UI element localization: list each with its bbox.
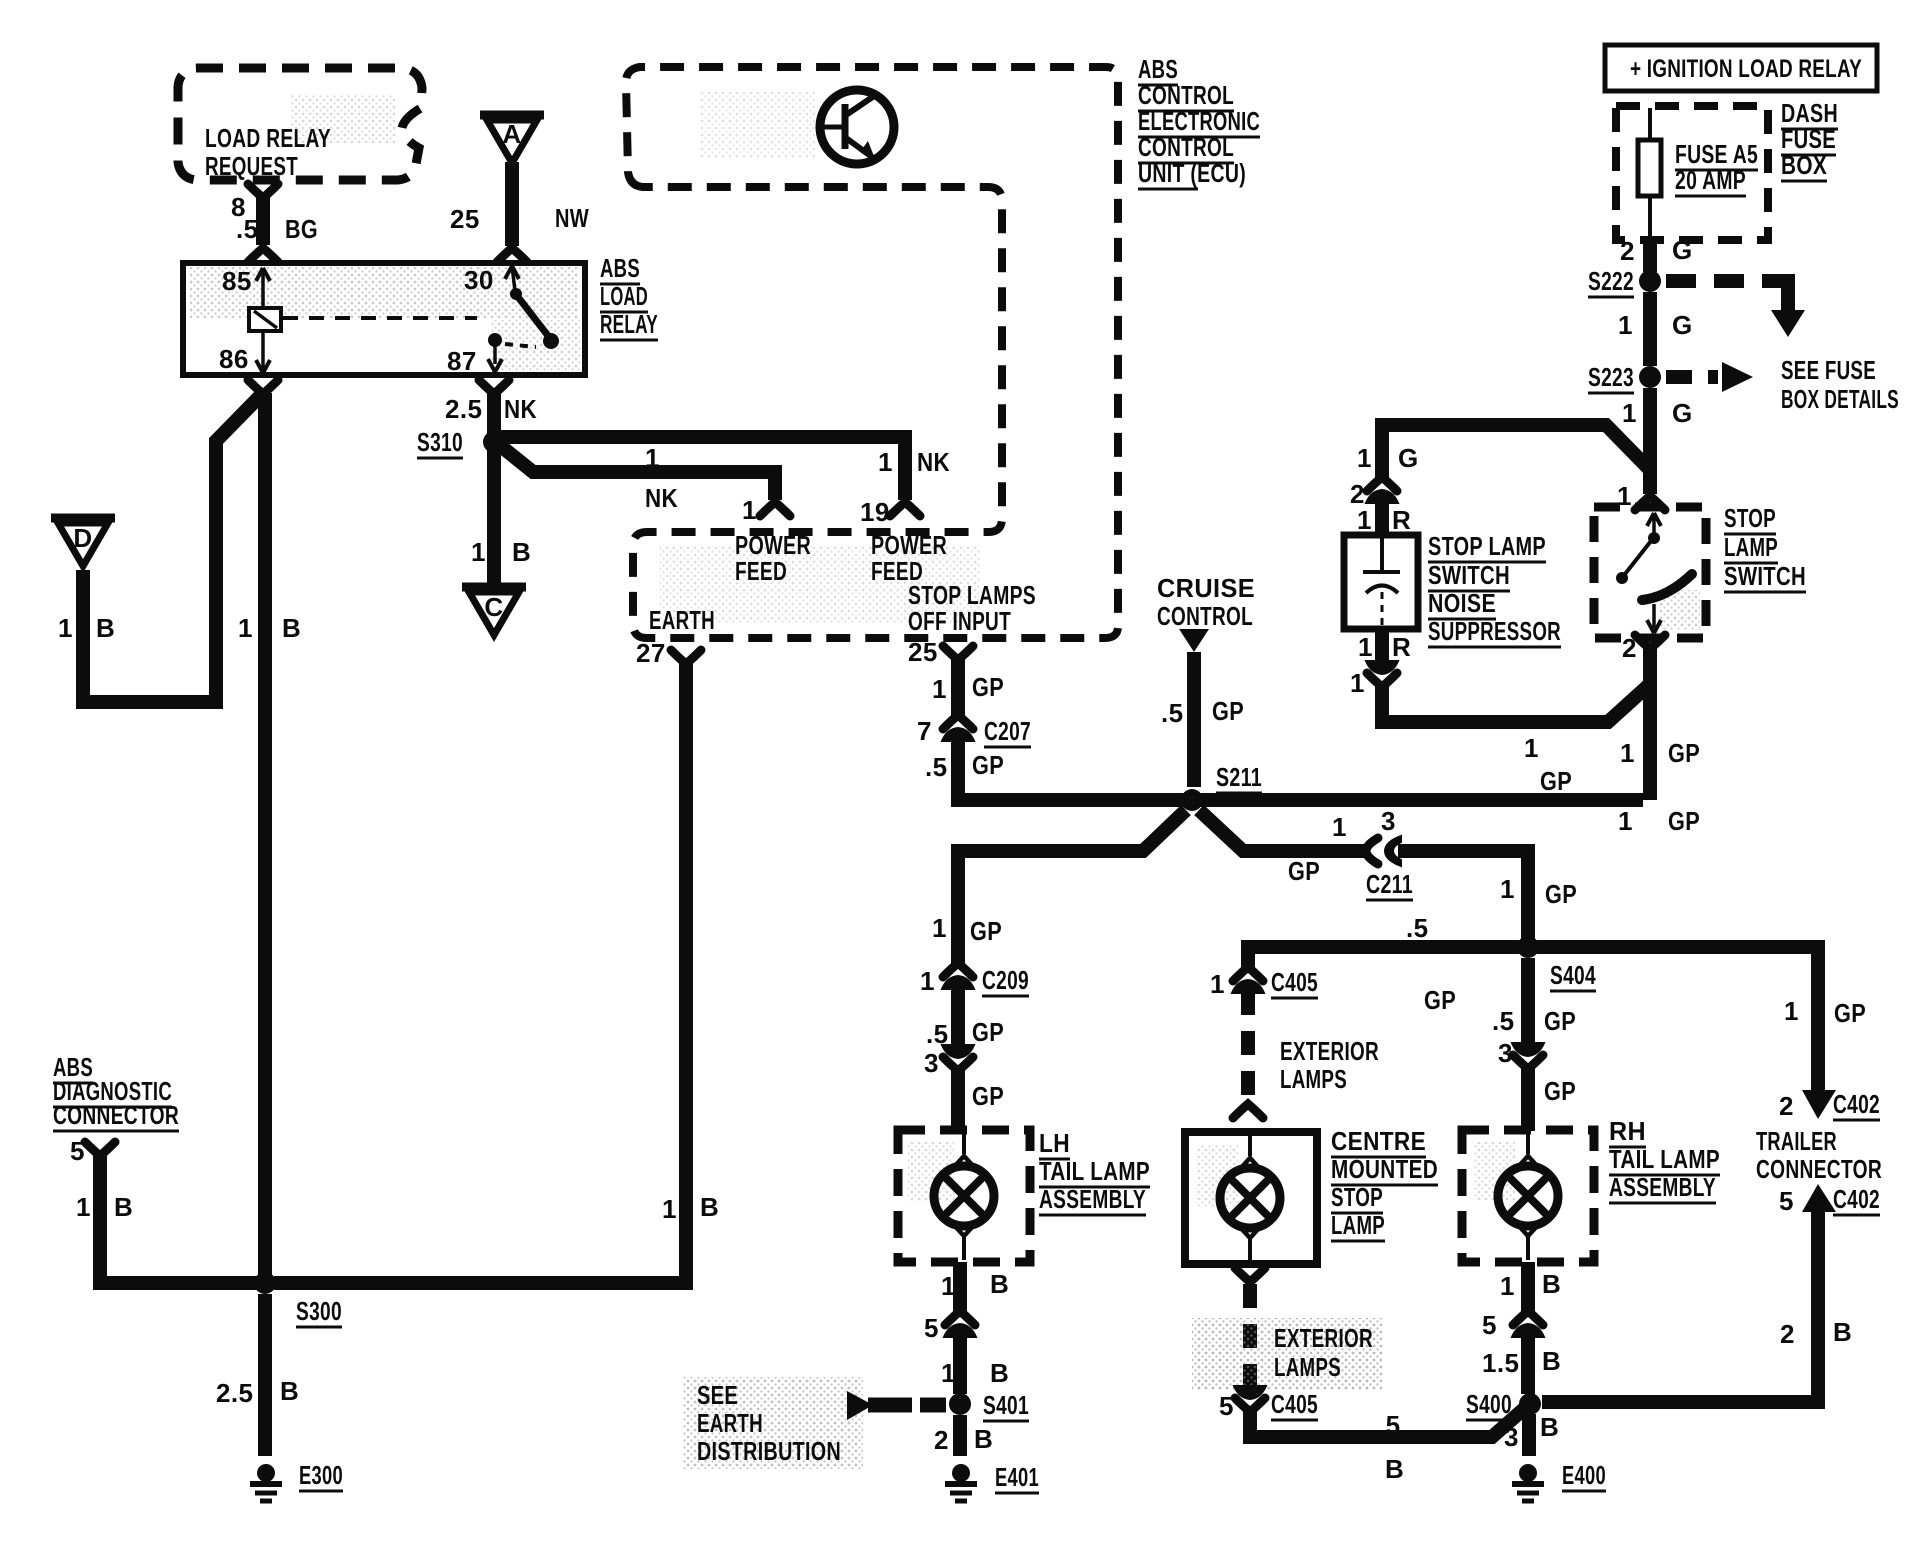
wire fork below centre lamp: [1235, 1268, 1265, 1282]
svg-text:1: 1: [941, 1271, 956, 1301]
svg-text:E401: E401: [995, 1462, 1039, 1492]
wire NW from triangle A to relay pin 30: [450, 162, 589, 262]
connector C402 pin 5 (trailer, arrow up): [1779, 1184, 1880, 1216]
svg-text:B: B: [114, 1192, 133, 1222]
svg-text:NK: NK: [917, 447, 950, 477]
svg-text:5: 5: [1482, 1310, 1497, 1340]
wire BG from load relay request to relay pin 85: [231, 184, 318, 262]
splice S404: [1517, 936, 1596, 991]
svg-text:ASSEMBLY: ASSEMBLY: [1609, 1172, 1716, 1202]
svg-text:B: B: [280, 1376, 299, 1406]
svg-text:1: 1: [932, 913, 947, 943]
svg-text:LH: LH: [1039, 1128, 1070, 1158]
svg-text:19: 19: [860, 497, 890, 527]
svg-text:ASSEMBLY: ASSEMBLY: [1039, 1184, 1146, 1214]
wire GP diagonal from S211 down-left: [958, 810, 1186, 851]
svg-text:1: 1: [1618, 806, 1633, 836]
svg-text:C405: C405: [1271, 1389, 1318, 1419]
svg-text:.5: .5: [1492, 1006, 1514, 1036]
svg-text:E400: E400: [1562, 1460, 1606, 1490]
svg-text:CONTROL: CONTROL: [1157, 601, 1253, 631]
svg-text:5: 5: [1219, 1391, 1234, 1421]
svg-text:1: 1: [238, 613, 253, 643]
svg-text:LAMP: LAMP: [1724, 532, 1778, 562]
ground E400: [1512, 1460, 1606, 1501]
node + IGNITION LOAD RELAY: [1605, 45, 1877, 91]
svg-text:TRAILER: TRAILER: [1756, 1126, 1837, 1156]
wire B from S300 to ECU pin 27: [274, 650, 719, 1283]
svg-text:1.5: 1.5: [1482, 1348, 1519, 1378]
wire GP from cruise control to S211: [1161, 652, 1244, 787]
wire B from RH lamp down: [1500, 1262, 1561, 1312]
svg-text:GP: GP: [970, 916, 1002, 946]
svg-text:1: 1: [1620, 738, 1635, 768]
svg-text:B: B: [1833, 1317, 1852, 1347]
wire G from fuse to splice S222: [1620, 235, 1693, 272]
svg-text:1: 1: [1500, 1271, 1515, 1301]
ground E401: [945, 1462, 1039, 1501]
connector inline 5 below LH lamp: [924, 1311, 976, 1343]
connector pin 2 of noise suppressor (inline): [1350, 477, 1398, 509]
svg-text:RELAY: RELAY: [600, 309, 658, 339]
svg-text:DISTRIBUTION: DISTRIBUTION: [697, 1436, 841, 1466]
svg-text:EXTERIOR: EXTERIOR: [1280, 1036, 1379, 1066]
lamp CENTRE MOUNTED STOP LAMP (solid box): [1185, 1126, 1438, 1264]
wire GP from C207 to S211 horizontal: [925, 740, 1643, 800]
svg-text:S400: S400: [1466, 1389, 1512, 1419]
svg-text:C402: C402: [1833, 1184, 1880, 1214]
wire G from S222 to S223: [1618, 292, 1693, 366]
svg-text:1: 1: [1524, 733, 1539, 763]
wire NK from S310 to ECU pin 19: [500, 437, 950, 516]
svg-text:TAIL LAMP: TAIL LAMP: [1039, 1156, 1150, 1186]
svg-text:EARTH: EARTH: [697, 1408, 763, 1438]
svg-text:1: 1: [1617, 481, 1632, 511]
splice S310: [417, 427, 505, 458]
svg-text:3: 3: [1381, 806, 1396, 836]
svg-text:EARTH: EARTH: [649, 605, 715, 635]
label STOP LAMP SWITCH: [1724, 503, 1806, 592]
svg-text:.5: .5: [1406, 913, 1428, 943]
svg-text:G: G: [1672, 235, 1693, 265]
wire B from C405 to S400 vertical: [1250, 1407, 1526, 1484]
node CRUISE CONTROL: [1157, 573, 1255, 652]
connector C405 (top, centre lamp feed): [1210, 967, 1318, 999]
svg-text:C: C: [484, 592, 503, 622]
svg-text:5: 5: [924, 1313, 939, 1343]
node SEE EARTH DISTRIBUTION (dashed arrow into S401): [683, 1377, 946, 1469]
svg-text:S310: S310: [417, 427, 463, 457]
connector inline 5 below RH lamp: [1482, 1310, 1544, 1340]
svg-text:27: 27: [636, 638, 666, 668]
svg-text:1: 1: [1332, 812, 1347, 842]
svg-text:GP: GP: [972, 1017, 1004, 1047]
relay switch contact (pins 30-87): [488, 266, 559, 372]
svg-text:LAMPS: LAMPS: [1274, 1352, 1341, 1382]
svg-text:REQUEST: REQUEST: [205, 151, 298, 181]
svg-text:2: 2: [934, 1425, 949, 1455]
svg-text:STOP: STOP: [1724, 503, 1776, 533]
svg-text:5: 5: [70, 1136, 85, 1166]
svg-text:FEED: FEED: [735, 556, 787, 586]
svg-text:1: 1: [1350, 668, 1365, 698]
svg-text:TAIL LAMP: TAIL LAMP: [1609, 1144, 1720, 1174]
svg-text:1: 1: [1784, 996, 1799, 1026]
svg-text:GP: GP: [1668, 806, 1700, 836]
svg-text:30: 30: [464, 265, 494, 295]
svg-text:+ IGNITION LOAD RELAY: + IGNITION LOAD RELAY: [1630, 55, 1862, 83]
svg-text:B: B: [282, 613, 301, 643]
relay coil (pins 85-86): [249, 268, 281, 373]
wire dashed (exterior lamps) from C405 to centre stop lamp: [1233, 991, 1379, 1118]
svg-text:GP: GP: [1834, 998, 1866, 1028]
splice S223: [1588, 362, 1661, 393]
svg-text:C402: C402: [1833, 1089, 1880, 1119]
splice S300: [254, 1272, 342, 1327]
ground E300: [250, 1460, 343, 1501]
svg-text:GP: GP: [1212, 696, 1244, 726]
svg-text:1: 1: [76, 1192, 91, 1222]
connector inline 3 on LH feed: [924, 1045, 974, 1078]
svg-text:1: 1: [941, 1358, 956, 1388]
svg-text:A: A: [502, 119, 521, 149]
svg-text:B: B: [512, 537, 531, 567]
svg-text:1: 1: [1500, 874, 1515, 904]
svg-text:B: B: [974, 1424, 993, 1454]
wire GP diagonal from S211 down-right: [1199, 810, 1366, 851]
wire dashed (exterior lamps) from centre lamp down: [1192, 1284, 1382, 1390]
svg-text:GP: GP: [1545, 879, 1577, 909]
svg-text:1: 1: [742, 495, 757, 525]
svg-text:25: 25: [908, 637, 938, 667]
svg-text:2: 2: [1779, 1091, 1794, 1121]
label ABS LOAD RELAY: [600, 253, 658, 340]
svg-text:UNIT (ECU): UNIT (ECU): [1138, 158, 1246, 188]
svg-text:GP: GP: [1540, 766, 1572, 796]
svg-text:1: 1: [1358, 632, 1373, 662]
svg-text:G: G: [1398, 443, 1419, 473]
wire GP from stop lamp switch down to S211 line: [1618, 648, 1700, 836]
svg-text:CENTRE: CENTRE: [1331, 1126, 1426, 1156]
wire B from relay pin 86 down to splice S300: [238, 380, 301, 1283]
svg-text:1: 1: [1618, 310, 1633, 340]
wire GP from C211 to splice S404: [1398, 851, 1577, 940]
svg-text:1: 1: [662, 1194, 677, 1224]
wire B from diagnostic connector to S300: [70, 1136, 258, 1283]
svg-text:D: D: [73, 523, 92, 553]
svg-text:1: 1: [1622, 398, 1637, 428]
svg-text:3: 3: [1498, 1038, 1513, 1068]
wire G from S223 down to stop lamp switch: [1622, 388, 1693, 494]
svg-text:3: 3: [924, 1048, 939, 1078]
svg-text:LAMP: LAMP: [1331, 1210, 1385, 1240]
label STOP LAMP SWITCH NOISE SUPPRESSOR: [1428, 531, 1561, 647]
svg-text:BOX DETAILS: BOX DETAILS: [1781, 384, 1899, 414]
svg-text:GP: GP: [972, 672, 1004, 702]
wire B from connector to splice S400: [1482, 1335, 1561, 1394]
svg-text:GP: GP: [972, 1081, 1004, 1111]
svg-text:87: 87: [447, 346, 477, 376]
svg-text:S211: S211: [1216, 762, 1262, 792]
svg-text:GP: GP: [1544, 1076, 1576, 1106]
connector triangle D: [51, 518, 115, 566]
svg-text:MOUNTED: MOUNTED: [1331, 1154, 1438, 1184]
svg-text:1: 1: [1357, 443, 1372, 473]
relay coil-to-contact dashed link: [283, 316, 477, 320]
svg-text:E300: E300: [299, 1460, 343, 1490]
wire B branch from pin 86 to triangle D: [58, 393, 263, 702]
wire B from S300 to earth E300: [216, 1294, 299, 1456]
svg-text:G: G: [1672, 310, 1693, 340]
svg-text:GP: GP: [972, 750, 1004, 780]
svg-text:LOAD RELAY: LOAD RELAY: [205, 123, 331, 153]
wire GP from S211 branch down to connector C209: [932, 851, 1002, 964]
svg-text:LOAD: LOAD: [600, 281, 648, 311]
svg-text:SWITCH: SWITCH: [1428, 560, 1510, 590]
svg-text:RH: RH: [1609, 1116, 1646, 1146]
fuse box (dash fuse box, dashed): [1616, 98, 1838, 240]
connector triangle C: [462, 587, 526, 635]
svg-text:S223: S223: [1588, 362, 1634, 392]
svg-text:GP: GP: [1288, 856, 1320, 886]
wire B from LH lamp down: [941, 1262, 1009, 1312]
svg-text:1: 1: [1357, 505, 1372, 535]
splice S401: [949, 1390, 1029, 1421]
svg-text:NK: NK: [504, 394, 537, 424]
svg-text:GP: GP: [1668, 738, 1700, 768]
svg-text:G: G: [1672, 398, 1693, 428]
svg-text:GP: GP: [1544, 1006, 1576, 1036]
connector C207: [917, 715, 1031, 747]
svg-text:1: 1: [1210, 969, 1225, 999]
svg-text:SEE: SEE: [697, 1380, 738, 1410]
fuse F1 FUSE A5 20 AMP: [1638, 108, 1758, 239]
svg-text:1: 1: [878, 447, 893, 477]
svg-text:NW: NW: [555, 203, 589, 233]
svg-text:B: B: [96, 613, 115, 643]
ECU U1 dashed outline (ABS control electronic control unit): [626, 67, 1118, 638]
svg-text:C405: C405: [1271, 967, 1318, 997]
svg-text:CONNECTOR: CONNECTOR: [1756, 1154, 1882, 1184]
svg-text:85: 85: [222, 266, 252, 296]
svg-text:GP: GP: [1424, 985, 1456, 1015]
wire GP from suppressor loop to stop lamp switch pin 2: [1382, 684, 1650, 796]
connector inline 3 on RH feed: [1498, 1038, 1544, 1069]
wire dashed branch from S222 to fuse box details (arrow down): [1666, 281, 1805, 337]
svg-text:S300: S300: [296, 1296, 342, 1326]
svg-text:.5: .5: [236, 214, 258, 244]
wire R into noise suppressor: [1357, 502, 1411, 535]
transistor Q1 inside ECU: [820, 90, 894, 164]
svg-text:LAMPS: LAMPS: [1280, 1064, 1347, 1094]
splice S400: [1466, 1389, 1541, 1420]
svg-text:B: B: [990, 1269, 1009, 1299]
wire B from S310 to triangle C: [471, 450, 531, 584]
connector inline below suppressor: [1350, 661, 1398, 698]
wire B from trailer connector to S400: [1542, 1212, 1852, 1402]
wire B from S401 to earth E401: [934, 1415, 993, 1456]
svg-text:.5: .5: [925, 752, 947, 782]
label ABS CONTROL ELECTRONIC CONTROL UNIT (ECU): [1138, 54, 1260, 189]
connector C402 pin 2 (trailer, arrow down): [1779, 1089, 1880, 1121]
ECU pin 19 label POWER FEED: [860, 497, 947, 586]
wire GP from S404 down to RH tail lamp: [1492, 958, 1576, 1044]
svg-text:2: 2: [1780, 1319, 1795, 1349]
ECU pin 1 label POWER FEED: [735, 495, 811, 586]
wire GP horizontal through S404 to trailer and C405: [1248, 913, 1866, 1090]
svg-text:B: B: [700, 1192, 719, 1222]
wire NK from relay pin 87 to splice S310: [445, 380, 537, 434]
wire GP to RH lamp box: [1528, 1067, 1576, 1131]
svg-text:C207: C207: [984, 716, 1031, 746]
wire GP from C209 to connector (3): [926, 987, 1004, 1049]
svg-text:3: 3: [1504, 1422, 1519, 1452]
svg-text:NOISE: NOISE: [1428, 588, 1496, 618]
svg-text:B: B: [990, 1358, 1009, 1388]
node TRAILER CONNECTOR: [1756, 1126, 1882, 1184]
svg-text:OFF INPUT: OFF INPUT: [908, 606, 1011, 636]
connector C405 (bottom): [1219, 1386, 1318, 1421]
ECU pin 25 label STOP LAMPS OFF INPUT: [908, 580, 1036, 667]
svg-text:SWITCH: SWITCH: [1724, 561, 1806, 591]
svg-text:EXTERIOR: EXTERIOR: [1274, 1323, 1373, 1353]
svg-text:STOP: STOP: [1331, 1182, 1383, 1212]
svg-text:2.5: 2.5: [216, 1378, 253, 1408]
wire NK from S310 to ECU pin 1: [497, 443, 790, 516]
svg-text:1: 1: [471, 537, 486, 567]
svg-text:7: 7: [917, 716, 932, 746]
svg-text:C211: C211: [1366, 869, 1413, 899]
svg-text:1: 1: [920, 966, 935, 996]
svg-text:BG: BG: [285, 214, 318, 244]
svg-text:20 AMP: 20 AMP: [1675, 165, 1746, 195]
svg-text:25: 25: [450, 204, 480, 234]
svg-text:2.5: 2.5: [445, 394, 482, 424]
wire G branch to noise suppressor: [1357, 425, 1652, 478]
wire R from suppressor down: [1358, 629, 1411, 663]
svg-text:.5: .5: [1161, 698, 1183, 728]
svg-text:CRUISE: CRUISE: [1157, 573, 1255, 603]
lamp LH tail lamp assembly (dashed box): [898, 1128, 1150, 1262]
svg-text:R: R: [1392, 632, 1411, 662]
svg-text:1: 1: [58, 613, 73, 643]
svg-text:86: 86: [219, 344, 249, 374]
svg-text:2: 2: [1622, 633, 1637, 663]
connector box LOAD RELAY REQUEST (dashed): [178, 68, 422, 181]
wire GP from connector to LH tail lamp: [958, 1069, 1004, 1131]
svg-text:SEE FUSE: SEE FUSE: [1781, 355, 1876, 385]
wire B from S400 to earth E400: [1504, 1412, 1559, 1456]
svg-text:BOX: BOX: [1781, 150, 1827, 180]
splice S222: [1588, 266, 1661, 297]
svg-text:1: 1: [645, 443, 660, 473]
svg-text:C209: C209: [982, 965, 1029, 995]
connector triangle A: [480, 115, 544, 163]
svg-text:B: B: [1385, 1454, 1404, 1484]
label 1/GP and connector C211 on wire to S404: [1288, 806, 1413, 900]
connector C209: [920, 963, 1029, 996]
svg-text:R: R: [1392, 505, 1411, 535]
svg-text:S401: S401: [983, 1390, 1029, 1420]
svg-text:B: B: [1542, 1269, 1561, 1299]
svg-text:CONNECTOR: CONNECTOR: [53, 1100, 179, 1130]
node ABS DIAGNOSTIC CONNECTOR: [53, 1052, 179, 1131]
relay K1 ABS LOAD RELAY box: [183, 263, 585, 376]
lamp RH tail lamp assembly (dashed box): [1462, 1116, 1720, 1262]
svg-text:2: 2: [1620, 236, 1635, 266]
svg-text:5: 5: [1779, 1186, 1794, 1216]
capacitor C1 stop lamp switch noise suppressor: [1344, 535, 1418, 629]
svg-text:SUPPRESSOR: SUPPRESSOR: [1428, 616, 1561, 646]
svg-text:.5: .5: [1378, 1410, 1400, 1440]
wire dashed arrow from S223 to SEE FUSE BOX DETAILS: [1666, 355, 1899, 414]
splice S211: [1181, 762, 1262, 811]
svg-text:ABS: ABS: [600, 253, 640, 283]
ECU pin 27 label EARTH: [636, 605, 715, 668]
switch S1 STOP LAMP SWITCH (dashed box): [1594, 481, 1706, 663]
svg-text:B: B: [1542, 1346, 1561, 1376]
wire B from connector to splice S401: [941, 1335, 1009, 1394]
wire GP from ECU pin 25 to connector C207: [932, 646, 1004, 716]
svg-text:NK: NK: [645, 483, 678, 513]
svg-text:STOP LAMP: STOP LAMP: [1428, 531, 1546, 561]
svg-text:1: 1: [932, 674, 947, 704]
svg-text:B: B: [1540, 1412, 1559, 1442]
svg-text:S404: S404: [1550, 960, 1596, 990]
svg-text:S222: S222: [1588, 266, 1634, 296]
